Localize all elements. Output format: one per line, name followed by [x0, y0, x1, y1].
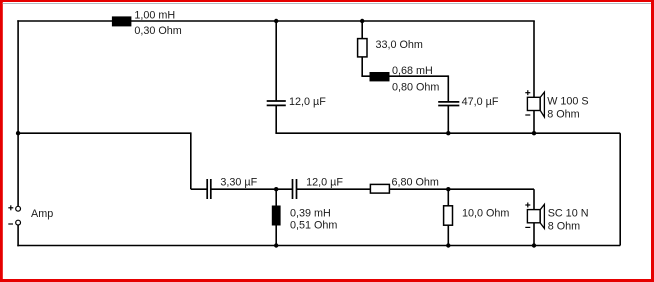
wire tweeter feed vertical — [190, 132, 192, 189]
wire right vertical — [619, 133, 621, 245]
resistor 6,80 Ohm body — [370, 184, 389, 193]
wire inductor 0,68 mH horizontal — [361, 75, 448, 77]
svg-text:0,68 mH: 0,68 mH — [392, 65, 433, 77]
inductor 0,68 mH body — [370, 72, 390, 81]
wire 47uF branch vertical lower — [447, 106, 449, 133]
svg-text:0,80 Ohm: 0,80 Ohm — [392, 82, 439, 94]
resistor 10,0 Ohm body — [444, 206, 453, 225]
capacitor 12,0 uF bottom plates — [292, 179, 294, 199]
wire 33 Ohm branch vertical upper — [361, 21, 363, 39]
junction tweeter node 1 — [274, 187, 278, 191]
wire W speaker vertical upper — [533, 21, 535, 97]
wire SC speaker vertical upper — [533, 189, 535, 210]
junction bottom rail node 3 — [532, 243, 536, 247]
wire 47uF branch vertical upper — [447, 75, 449, 101]
amp terminal plus — [16, 206, 21, 211]
svg-text:0,30 Ohm: 0,30 Ohm — [134, 25, 181, 37]
svg-text:1,00 mH: 1,00 mH — [134, 10, 175, 22]
junction left node — [16, 131, 20, 135]
amp minus sign — [8, 223, 13, 225]
speaker SC 10 N box — [527, 210, 540, 223]
inductor 1,00 mH body — [112, 16, 131, 26]
wire left vertical (amp + to top) — [17, 20, 19, 208]
svg-text:10,0 Ohm: 10,0 Ohm — [462, 208, 509, 220]
wire tweeter horizontal segment 3 — [297, 188, 534, 190]
junction bottom rail node 1 — [274, 243, 278, 247]
wire amp minus vertical — [17, 223, 19, 247]
svg-text:12,0 µF: 12,0 µF — [306, 177, 343, 189]
svg-text:8 Ohm: 8 Ohm — [547, 109, 579, 121]
wire 10 Ohm branch vertical — [447, 189, 449, 245]
wire woofer bottom rail — [275, 132, 620, 134]
svg-text:6,80 Ohm: 6,80 Ohm — [392, 177, 439, 189]
svg-text:12,0 µF: 12,0 µF — [289, 96, 326, 108]
amp terminal minus — [16, 220, 21, 225]
wire top horizontal — [17, 20, 535, 22]
svg-text:0,51 Ohm: 0,51 Ohm — [290, 219, 337, 231]
junction woofer rail node 2 — [532, 131, 536, 135]
wire inductor 0,39 mH branch vertical — [275, 189, 277, 245]
svg-text:3,30 µF: 3,30 µF — [220, 177, 257, 189]
W speaker minus sign — [525, 114, 530, 116]
SC speaker plus sign — [525, 204, 530, 206]
wire SC speaker vertical lower — [533, 223, 535, 246]
junction bottom rail node 2 — [446, 243, 450, 247]
wire 12uF cap branch vertical lower — [275, 106, 277, 133]
W speaker plus sign — [525, 92, 530, 94]
junction tweeter node 2 — [446, 187, 450, 191]
svg-text:33,0 Ohm: 33,0 Ohm — [376, 39, 423, 51]
wire 12uF cap branch vertical upper — [275, 21, 277, 100]
wire 33 Ohm branch vertical lower — [361, 57, 363, 77]
capacitor 47,0 uF plates — [438, 101, 459, 103]
svg-text:47,0 µF: 47,0 µF — [462, 96, 499, 108]
junction top node 1 — [274, 19, 278, 23]
capacitor 12,0 uF top plates — [267, 100, 286, 102]
capacitor 3,30 uF plates — [206, 179, 208, 199]
svg-text:SC 10 N: SC 10 N — [548, 207, 589, 219]
svg-text:W 100 S: W 100 S — [547, 96, 588, 108]
wire tweeter horizontal segment 1 — [191, 188, 207, 190]
SC speaker minus sign — [525, 226, 530, 228]
svg-text:0,39 mH: 0,39 mH — [290, 207, 331, 219]
inductor 0,39 mH body — [272, 206, 281, 226]
wire tweeter horizontal segment 2 — [211, 188, 292, 190]
speaker SC 10 N cone — [540, 204, 544, 228]
svg-text:8 Ohm: 8 Ohm — [548, 221, 580, 233]
wire mid horizontal (node to tweeter branch) — [17, 132, 191, 134]
junction top node 2 — [360, 19, 364, 23]
wire bottom rail — [17, 245, 620, 247]
speaker W 100 S cone — [540, 92, 544, 117]
svg-text:Amp: Amp — [31, 208, 53, 220]
amp plus sign — [8, 207, 13, 209]
wire W speaker vertical lower — [533, 110, 535, 133]
resistor 33,0 Ohm body — [358, 39, 367, 57]
speaker W 100 S box — [527, 97, 540, 110]
junction woofer rail node 1 — [446, 131, 450, 135]
